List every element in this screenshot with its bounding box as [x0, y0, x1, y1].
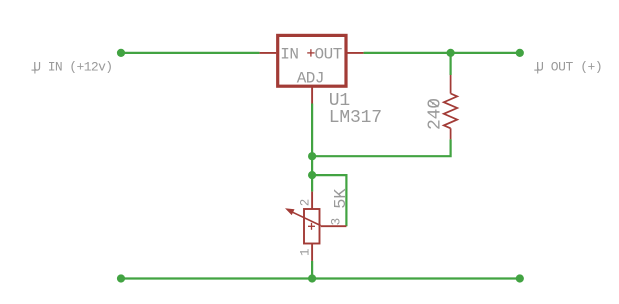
potentiometer body rectangle	[304, 209, 320, 244]
svg-text:5K: 5K	[332, 188, 351, 209]
label net U IN (+12v)	[33, 60, 112, 75]
op-amp U1 regulator body box	[278, 35, 346, 86]
svg-text:IN: IN	[280, 45, 298, 63]
resistor 240 zigzag body	[444, 94, 457, 129]
node junction ADJ and wiper net	[308, 171, 316, 179]
potentiometer pin 2 stub	[311, 192, 313, 209]
node junction ADJ and resistor net	[308, 152, 316, 160]
origin cross of U1	[307, 49, 314, 56]
node junction top of resistor branch	[447, 49, 455, 57]
label LM317 value	[329, 108, 382, 128]
potentiometer pin 3 wiper stub	[321, 225, 347, 227]
wire from pot pin 1 down to bottom net	[311, 261, 313, 279]
label U1 reference designator	[329, 91, 350, 111]
svg-text:LM317: LM317	[329, 108, 382, 128]
svg-text:2: 2	[299, 199, 313, 206]
svg-text:3: 3	[330, 218, 344, 225]
wire wiper net from junction right and down to pot pin 3	[312, 175, 346, 226]
pin number 2	[299, 199, 313, 206]
label origin cross for U IN	[32, 67, 39, 74]
wire top net from OUT pin to U OUT terminal	[364, 52, 520, 54]
node U IN terminal dot	[117, 49, 125, 57]
wire from resistor bottom to ADJ junction	[312, 139, 451, 156]
resistor 240 bottom pin stub	[450, 128, 452, 139]
pin name IN	[280, 45, 298, 63]
node bottom right terminal dot	[516, 274, 524, 282]
node bottom left terminal dot	[117, 274, 125, 282]
potentiometer wiper arrowhead	[285, 208, 295, 215]
svg-text:U IN (+12v): U IN (+12v)	[33, 60, 112, 75]
svg-text:ADJ: ADJ	[297, 70, 324, 88]
wire from junction down to resistor top	[450, 53, 452, 75]
label 240 value	[425, 98, 445, 130]
pin ADJ stub of U1	[311, 88, 313, 104]
svg-text:OUT: OUT	[315, 45, 342, 63]
potentiometer wiper diagonal line	[293, 212, 321, 225]
wire top net from U IN terminal to regulator IN pin	[121, 52, 260, 54]
wire ADJ net vertical from ADJ pin down to pot	[311, 104, 313, 192]
wire bottom net	[121, 277, 520, 279]
pin name ADJ	[297, 70, 324, 88]
svg-text:1: 1	[299, 249, 313, 256]
pin OUT stub of U1	[348, 52, 364, 54]
pin IN stub of U1	[260, 52, 277, 54]
node junction bottom of pot branch	[308, 274, 316, 282]
label net U OUT (+)	[536, 60, 602, 75]
node U OUT terminal dot	[516, 49, 524, 57]
label origin cross for U OUT	[534, 67, 541, 74]
pin number 1	[299, 249, 313, 256]
origin cross of potentiometer	[308, 223, 315, 230]
pin name OUT	[315, 45, 342, 63]
svg-text:240: 240	[425, 98, 445, 130]
svg-text:U OUT (+): U OUT (+)	[536, 60, 602, 75]
resistor 240 top pin stub	[450, 75, 452, 94]
label 5K value	[332, 188, 351, 209]
potentiometer pin 1 stub	[311, 244, 313, 261]
pin number 3	[330, 218, 344, 225]
